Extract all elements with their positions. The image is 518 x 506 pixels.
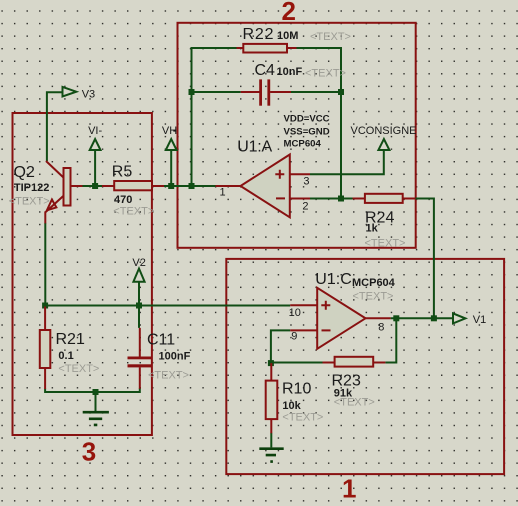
svg-text:VDD=VCC: VDD=VCC [284,114,330,125]
svg-text:10k: 10k [282,400,301,412]
svg-text:10nF: 10nF [277,66,303,78]
svg-text:R21: R21 [56,331,85,348]
svg-text:V2: V2 [132,257,145,269]
svg-text:<TEXT>: <TEXT> [305,68,346,80]
svg-text:TIP122: TIP122 [14,182,49,194]
svg-text:<TEXT>: <TEXT> [9,196,50,208]
svg-text:2: 2 [282,0,296,26]
svg-text:0.1: 0.1 [58,350,73,362]
svg-text:3: 3 [303,175,309,187]
svg-text:3: 3 [82,437,96,467]
svg-text:Q2: Q2 [14,164,35,181]
svg-text:10M: 10M [277,30,298,42]
svg-text:<TEXT>: <TEXT> [113,205,154,217]
svg-text:1k: 1k [366,223,379,235]
svg-text:MCP604: MCP604 [284,139,322,150]
svg-text:U1:C: U1:C [315,271,351,288]
svg-text:MCP604: MCP604 [352,277,396,289]
svg-text:V1: V1 [473,314,486,326]
svg-text:C4: C4 [255,62,276,79]
svg-text:C11: C11 [147,332,175,349]
svg-text:<TEXT>: <TEXT> [353,290,394,302]
svg-text:<TEXT>: <TEXT> [148,370,189,382]
svg-text:470: 470 [114,194,132,206]
svg-text:9: 9 [291,330,297,342]
svg-text:8: 8 [378,321,384,333]
svg-text:VI-: VI- [88,125,102,137]
svg-text:U1:A: U1:A [237,139,272,156]
svg-text:R10: R10 [282,381,311,398]
svg-text:100nF: 100nF [159,351,191,363]
svg-text:10: 10 [289,307,301,319]
svg-text:<TEXT>: <TEXT> [310,31,351,43]
svg-text:R5: R5 [112,164,133,181]
svg-text:<TEXT>: <TEXT> [365,238,406,250]
svg-text:1: 1 [220,187,226,199]
svg-text:<TEXT>: <TEXT> [282,411,323,423]
svg-text:1: 1 [342,474,356,504]
svg-text:<TEXT>: <TEXT> [334,397,375,409]
svg-text:2: 2 [302,201,308,213]
svg-text:VSS=GND: VSS=GND [284,127,330,138]
svg-text:V3: V3 [82,88,95,100]
svg-text:R22: R22 [243,26,274,43]
svg-text:VCONSIGNE: VCONSIGNE [351,125,417,137]
svg-text:<TEXT>: <TEXT> [58,363,99,375]
